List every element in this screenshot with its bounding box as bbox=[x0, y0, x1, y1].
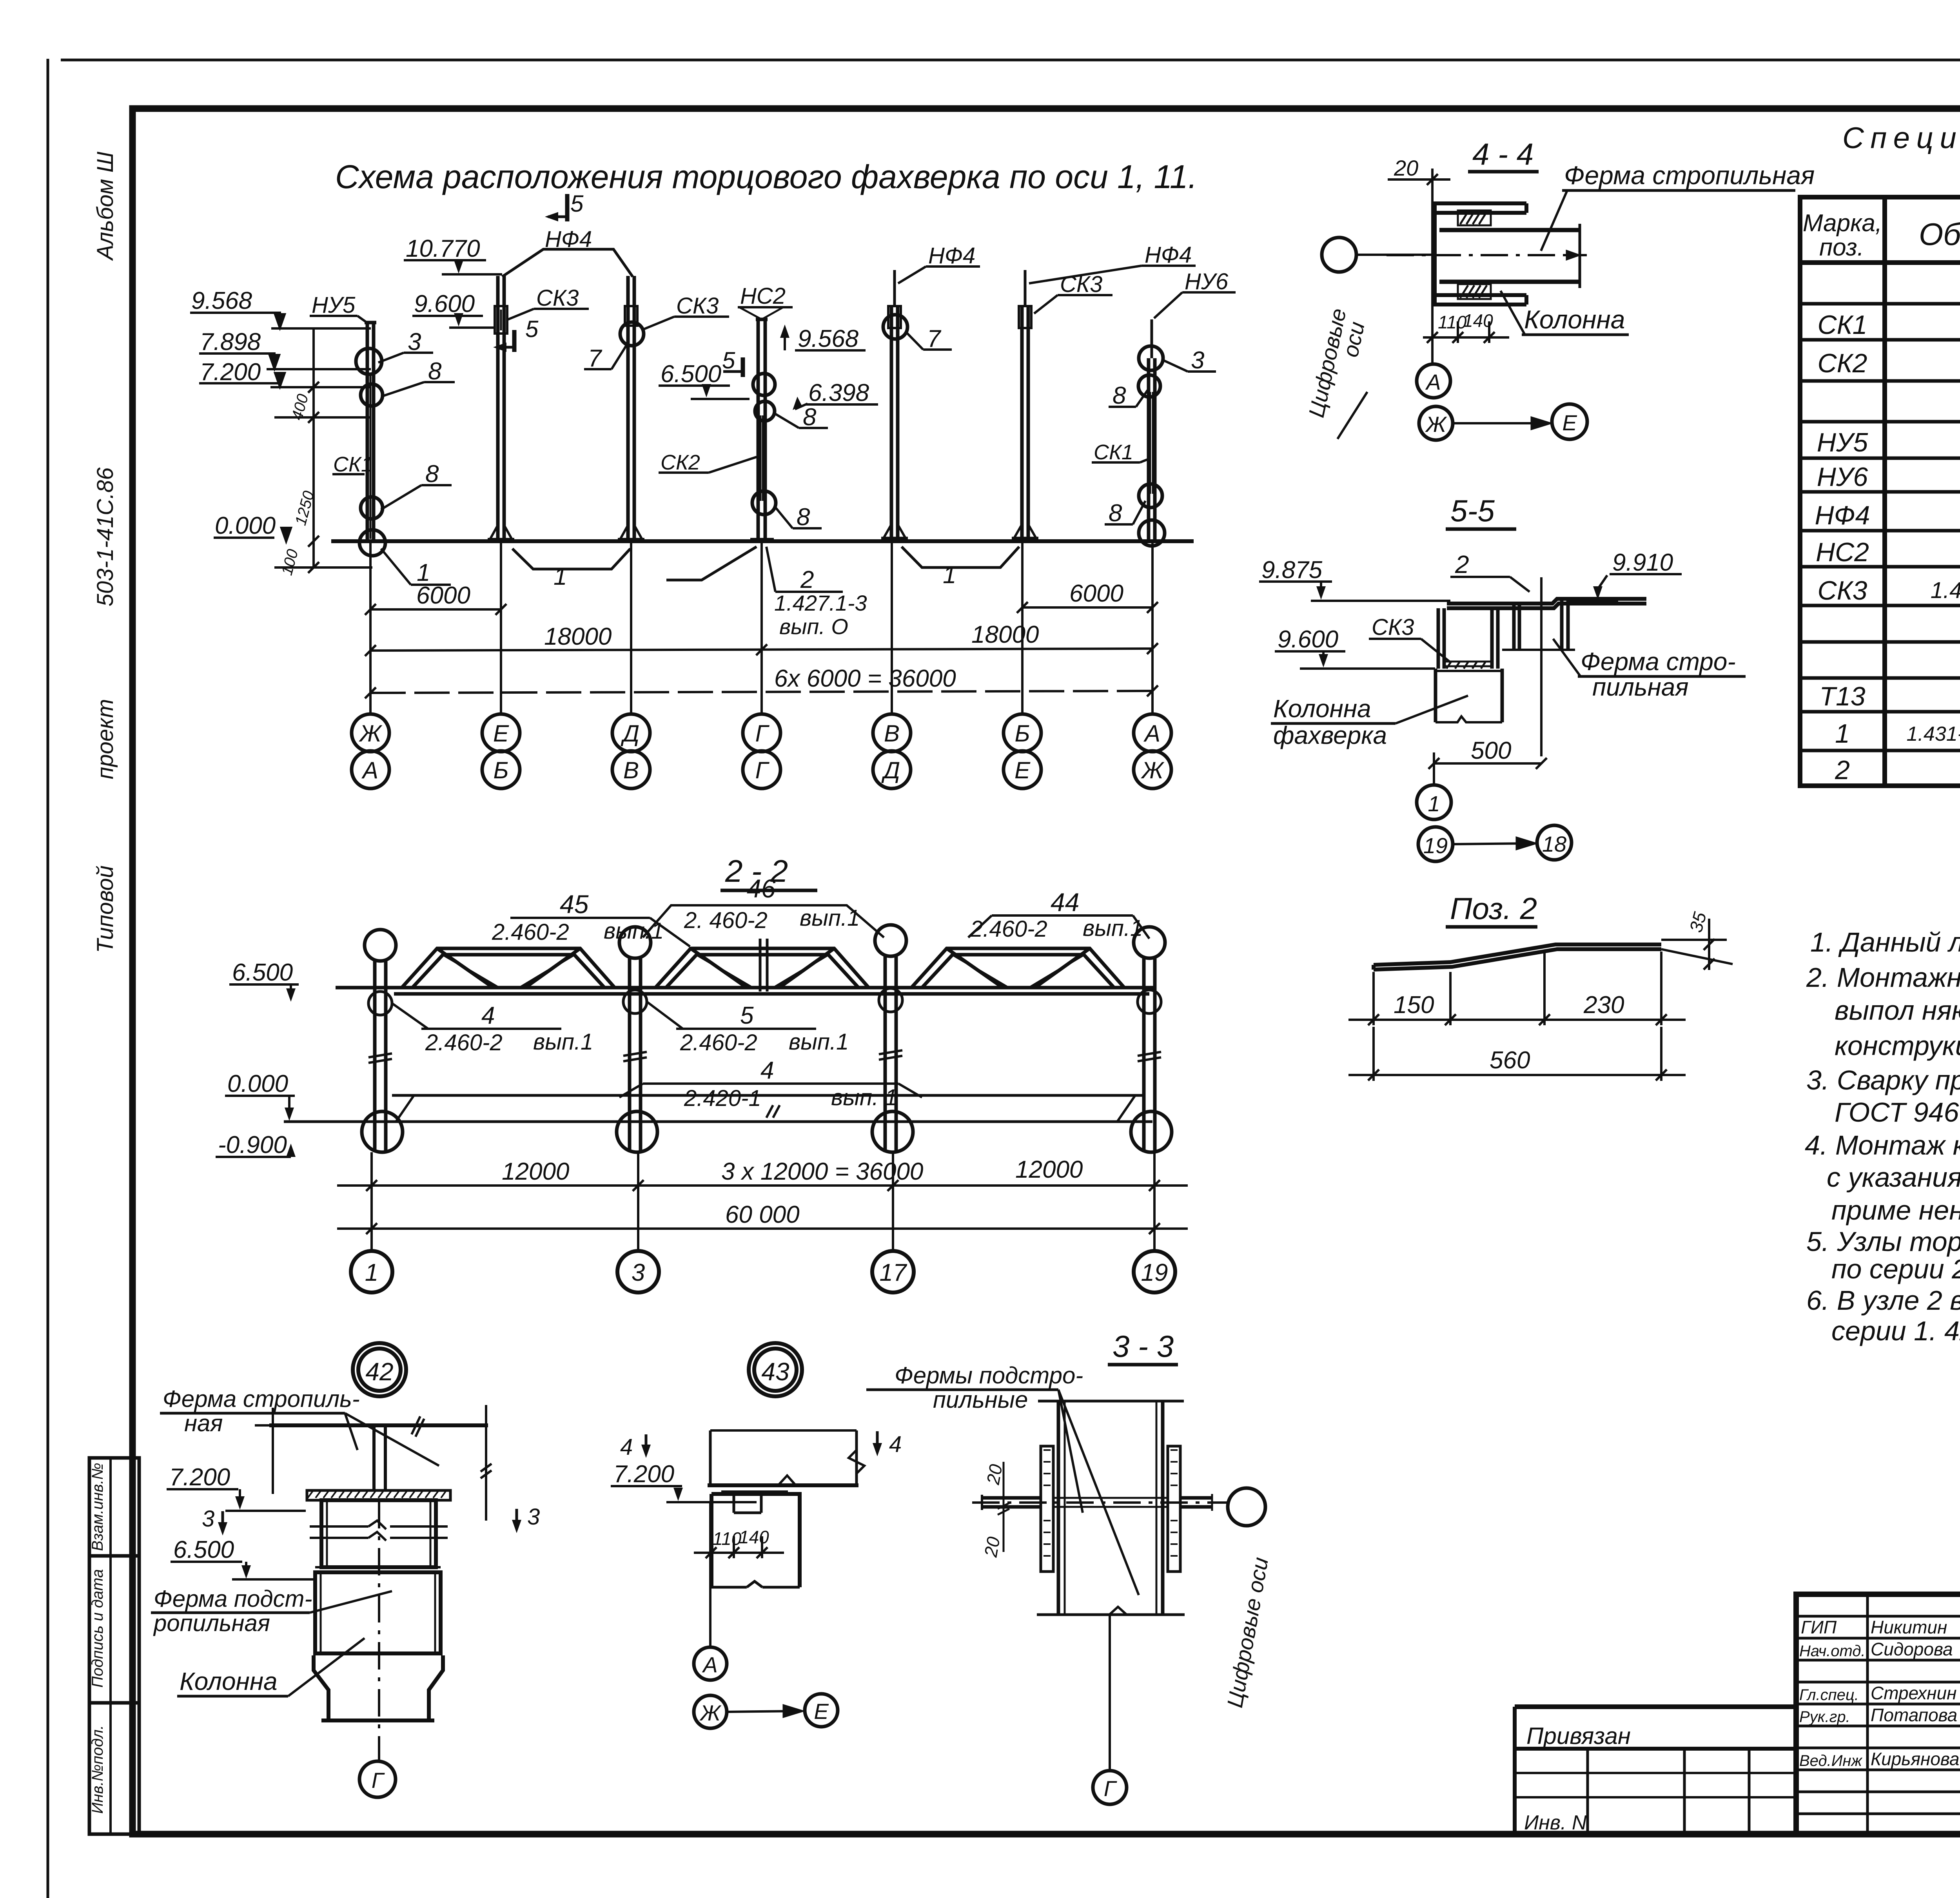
СК3 label (5-5) bbox=[1369, 615, 1450, 662]
svg-text:8: 8 bbox=[425, 460, 439, 488]
svg-text:5: 5 bbox=[722, 347, 735, 373]
svg-text:Нач.отд.: Нач.отд. bbox=[1799, 1642, 1866, 1660]
svg-text:вып.1: вып.1 bbox=[800, 905, 860, 931]
svg-text:2.460-2: 2.460-2 bbox=[680, 1030, 757, 1055]
svg-text:503-1-41С.86: 503-1-41С.86 bbox=[93, 467, 118, 606]
node 43: axis circles А Ж Е bbox=[694, 1502, 838, 1728]
svg-text:7.200: 7.200 bbox=[613, 1461, 674, 1488]
svg-text:1: 1 bbox=[365, 1259, 378, 1286]
label Колонна фахверка bbox=[1271, 694, 1468, 749]
svg-text:Е: Е bbox=[1562, 410, 1577, 435]
svg-text:Колонна: Колонна bbox=[1524, 305, 1625, 334]
svg-text:500: 500 bbox=[1471, 737, 1511, 764]
svg-text:1: 1 bbox=[943, 562, 956, 589]
svg-text:Д: Д bbox=[621, 720, 639, 747]
svg-text:Ж: Ж bbox=[1425, 412, 1447, 437]
svg-text:3: 3 bbox=[1191, 347, 1204, 374]
svg-text:Т13: Т13 bbox=[1819, 682, 1865, 711]
svg-text:12000: 12000 bbox=[502, 1158, 569, 1185]
svg-text:150: 150 bbox=[1394, 992, 1434, 1019]
post 3 (x=1610, tall НФ4) bbox=[618, 276, 644, 541]
3-3 rotated label Цифровые оси bbox=[1222, 1555, 1273, 1709]
svg-text:6000: 6000 bbox=[1069, 580, 1123, 607]
node 43: section mark 4 right bbox=[873, 1431, 902, 1457]
callout 45 bbox=[492, 890, 690, 946]
svg-text:НУ6: НУ6 bbox=[1817, 462, 1868, 492]
svg-text:Г: Г bbox=[372, 1768, 385, 1793]
Поз.2 title bbox=[1446, 891, 1537, 927]
svg-text:НФ4: НФ4 bbox=[928, 243, 975, 268]
svg-text:3 x 12000 = 36000: 3 x 12000 = 36000 bbox=[721, 1158, 923, 1185]
node 42: upper column box bbox=[310, 1500, 448, 1567]
svg-text:1.431-20 вып.7 часть2: 1.431-20 вып.7 часть2 bbox=[1907, 723, 1960, 745]
axis drop lines bbox=[370, 540, 1152, 714]
3-3 dim 20-20 rotated bbox=[980, 1462, 1009, 1559]
node 43: section mark 4 + level 7.200 bbox=[611, 1434, 757, 1502]
svg-text:10.770: 10.770 bbox=[406, 235, 480, 262]
axis circles 1, 19 -> 18 (5-5) bbox=[1417, 763, 1572, 861]
svg-text:А: А bbox=[702, 1652, 717, 1677]
2-2 axis circles bbox=[351, 1251, 1175, 1293]
svg-text:-0.900: -0.900 bbox=[218, 1131, 287, 1158]
node 42: label Колонна bbox=[177, 1638, 365, 1696]
svg-text:1.427.1-3 вып. 2: 1.427.1-3 вып. 2 bbox=[1931, 578, 1960, 603]
svg-text:вып. 1: вып. 1 bbox=[831, 1085, 897, 1110]
svg-text:СК3: СК3 bbox=[1060, 272, 1102, 297]
2-2 posts top circles bbox=[365, 925, 1165, 961]
svg-text:4: 4 bbox=[620, 1434, 633, 1460]
svg-text:Инв. N: Инв. N bbox=[1524, 1811, 1587, 1834]
svg-text:8: 8 bbox=[803, 404, 817, 431]
callout 1 trapezoid between posts 2-3 bbox=[512, 549, 630, 590]
svg-text:46: 46 bbox=[747, 874, 776, 903]
node 43: dims 110 140 bbox=[694, 1527, 784, 1558]
svg-text:конструкций.: конструкций. bbox=[1835, 1030, 1960, 1061]
svg-text:проект: проект bbox=[93, 699, 118, 779]
svg-text:СК3: СК3 bbox=[1817, 576, 1867, 605]
node 42: label Ферма стропильная bbox=[160, 1386, 439, 1466]
5-5 bent plate bbox=[1447, 599, 1646, 608]
post 2 (x=1278, tall НФ4) bbox=[488, 276, 514, 541]
svg-text:8: 8 bbox=[428, 358, 442, 385]
left margin rotated captions bbox=[93, 151, 118, 953]
svg-text:6.398: 6.398 bbox=[808, 379, 869, 406]
staff names bbox=[1799, 1617, 1960, 1769]
spec table rows bbox=[1815, 268, 1960, 785]
svg-text:18: 18 bbox=[1542, 832, 1566, 856]
6.500 label bbox=[659, 361, 750, 399]
привязан + left extension table bbox=[1515, 1707, 1796, 1834]
svg-text:В: В bbox=[623, 757, 639, 783]
svg-text:19: 19 bbox=[1141, 1259, 1168, 1286]
ground line of scheme bbox=[331, 539, 1194, 543]
callout 44 bbox=[968, 888, 1149, 942]
dims 110 140 (4-4) bbox=[1423, 310, 1509, 343]
svg-text:9.600: 9.600 bbox=[1278, 626, 1338, 653]
svg-text:18000: 18000 bbox=[544, 623, 612, 650]
svg-text:3: 3 bbox=[408, 328, 421, 355]
3-3 I-beam bbox=[982, 1494, 1212, 1511]
4-4 beam bbox=[1439, 224, 1580, 288]
8 labels post4 bbox=[775, 404, 828, 531]
HF4 callout over posts 2-3 bbox=[502, 227, 633, 277]
svg-text:2.460-2: 2.460-2 bbox=[425, 1030, 503, 1055]
svg-text:17: 17 bbox=[880, 1259, 907, 1286]
9.568 right label bbox=[780, 324, 866, 352]
svg-text:110: 110 bbox=[713, 1528, 742, 1549]
svg-text:вып. О: вып. О bbox=[779, 614, 848, 639]
dim 20 top bbox=[1388, 156, 1450, 192]
spec table title bbox=[1842, 121, 1960, 191]
svg-text:НФ4: НФ4 bbox=[1815, 500, 1870, 530]
svg-text:2: 2 bbox=[1835, 755, 1850, 785]
CK2 label bbox=[659, 451, 757, 474]
svg-text:6.500: 6.500 bbox=[661, 361, 721, 388]
2-2 post node circles bbox=[368, 988, 1161, 1015]
svg-text:Ж: Ж bbox=[699, 1700, 722, 1725]
svg-text:Подпись и дата: Подпись и дата bbox=[89, 1569, 106, 1688]
svg-text:19: 19 bbox=[1423, 833, 1448, 858]
svg-text:0.000: 0.000 bbox=[215, 512, 276, 539]
frame bottom reinforcement under title block bbox=[132, 1831, 1960, 1838]
svg-text:Ж: Ж bbox=[1140, 757, 1164, 783]
svg-text:7.200: 7.200 bbox=[169, 1464, 230, 1491]
svg-text:3: 3 bbox=[202, 1506, 214, 1532]
svg-text:Д: Д bbox=[881, 757, 900, 783]
node 43: column with notch bbox=[711, 1492, 800, 1587]
svg-text:4: 4 bbox=[760, 1057, 774, 1084]
svg-text:7: 7 bbox=[588, 345, 603, 372]
node 42: thin plates bbox=[315, 1567, 441, 1572]
label Колонна (4-4) bbox=[1501, 291, 1629, 335]
svg-text:СК3: СК3 bbox=[1372, 615, 1414, 640]
svg-text:Вед.Инж: Вед.Инж bbox=[1799, 1752, 1862, 1769]
svg-text:НС2: НС2 bbox=[1816, 537, 1869, 567]
svg-text:поз.: поз. bbox=[1819, 234, 1864, 261]
svg-text:СК2: СК2 bbox=[661, 451, 700, 474]
left bottom strip table bbox=[89, 1458, 139, 1834]
svg-text:НУ5: НУ5 bbox=[1817, 428, 1868, 457]
callout 4 2.460-2 вып.1 bbox=[392, 1002, 593, 1055]
svg-text:6000: 6000 bbox=[416, 582, 470, 609]
svg-text:5-5: 5-5 bbox=[1450, 493, 1495, 528]
3-3 flange plates bbox=[1041, 1446, 1180, 1572]
svg-text:Е: Е bbox=[814, 1699, 829, 1724]
section 2-2 title bbox=[720, 854, 817, 890]
svg-text:7.200: 7.200 bbox=[200, 359, 261, 386]
svg-text:0.000: 0.000 bbox=[227, 1070, 288, 1097]
Поз.2 dim 35 bbox=[1661, 910, 1733, 970]
svg-text:НУ5: НУ5 bbox=[312, 292, 356, 318]
callout 2 1.427.1-3 вып.О below post4 bbox=[766, 547, 867, 639]
svg-text:3: 3 bbox=[632, 1259, 645, 1286]
2-2 floor lines bbox=[284, 1095, 1152, 1122]
spec table header texts bbox=[1803, 208, 1960, 261]
svg-text:20: 20 bbox=[1394, 156, 1418, 180]
Поз.2 dims 150 230 bbox=[1348, 952, 1686, 1025]
svg-text:Фермы подстро-: Фермы подстро- bbox=[895, 1362, 1083, 1389]
3-3 truss columns bbox=[1037, 1401, 1185, 1615]
svg-text:ГОСТ 9467 - 75.: ГОСТ 9467 - 75. bbox=[1835, 1097, 1960, 1128]
node 42: section marks 3 bbox=[202, 1504, 540, 1535]
svg-text:вып.1: вып.1 bbox=[789, 1029, 849, 1055]
5-5 stand column section bbox=[1438, 608, 1498, 669]
2-2 truss 2 bbox=[655, 939, 869, 992]
node mark 43 bbox=[749, 1343, 802, 1396]
svg-text:Потапова: Потапова bbox=[1871, 1705, 1957, 1725]
svg-text:5. Узлы торцового фахверка: 5. Узлы торцового фахверка замаркированы bbox=[1806, 1226, 1960, 1257]
svg-text:Обозначение: Обозначение bbox=[1919, 217, 1960, 252]
svg-text:СК3: СК3 bbox=[676, 293, 719, 319]
svg-text:Стрехнин: Стрехнин bbox=[1871, 1683, 1956, 1703]
svg-text:Типовой: Типовой bbox=[93, 865, 118, 953]
svg-text:140: 140 bbox=[739, 1527, 769, 1547]
svg-text:приме ненных серий.: приме ненных серий. bbox=[1831, 1195, 1960, 1225]
svg-text:9.875: 9.875 bbox=[1261, 557, 1323, 584]
svg-text:110: 110 bbox=[1438, 312, 1467, 332]
svg-text:Схема расположения торцового ф: Схема расположения торцового фахверка по… bbox=[335, 158, 1197, 195]
svg-text:Спецификация к схеме распо: Спецификация к схеме расположения bbox=[1842, 121, 1960, 155]
svg-text:60 000: 60 000 bbox=[725, 1201, 800, 1228]
svg-text:Ферма стро-: Ферма стро- bbox=[1581, 647, 1736, 676]
svg-text:9.910: 9.910 bbox=[1612, 549, 1673, 576]
svg-text:Альбом Ш: Альбом Ш bbox=[93, 151, 118, 261]
level 9.875 bbox=[1259, 557, 1450, 601]
node 42: base plate with hatch bbox=[307, 1490, 450, 1500]
svg-text:9.568: 9.568 bbox=[191, 287, 252, 314]
svg-text:4: 4 bbox=[889, 1432, 902, 1457]
svg-text:4 - 4: 4 - 4 bbox=[1472, 137, 1534, 171]
svg-text:Рук.гр.: Рук.гр. bbox=[1799, 1708, 1850, 1726]
dim 500 (5-5) bbox=[1428, 737, 1547, 786]
svg-text:СК3: СК3 bbox=[536, 285, 579, 311]
svg-text:9.568: 9.568 bbox=[798, 325, 859, 352]
post CK1 axis Ж (x=945) bbox=[356, 323, 385, 556]
svg-text:8: 8 bbox=[797, 504, 810, 531]
label 2 (5-5) bbox=[1450, 550, 1530, 592]
4-4 bolt hatch boxes bbox=[1458, 210, 1491, 299]
svg-text:6.500: 6.500 bbox=[232, 959, 293, 986]
section mark 5 lower bbox=[493, 316, 539, 352]
svg-text:НС2: НС2 bbox=[740, 283, 786, 309]
svg-text:А: А bbox=[361, 757, 378, 783]
post 7 (x=2938, СК1 + НУ6) bbox=[1138, 319, 1165, 546]
node 42: axis + circle Г bbox=[359, 1501, 396, 1797]
svg-text:СК1: СК1 bbox=[333, 453, 373, 476]
node 42: label Ферма подстропильная bbox=[151, 1586, 392, 1636]
svg-text:серии 1. 427. 1-3 вып. О: серии 1. 427. 1-3 вып. О bbox=[1831, 1316, 1960, 1346]
svg-text:Б: Б bbox=[1014, 720, 1030, 747]
HF4 callout over posts 5-6 bbox=[898, 243, 980, 283]
2-2 dim line 60000 bbox=[337, 1201, 1188, 1234]
svg-text:В: В bbox=[884, 720, 900, 747]
svg-text:СК1: СК1 bbox=[1094, 441, 1133, 464]
svg-text:12000: 12000 bbox=[1015, 1156, 1083, 1183]
svg-text:8: 8 bbox=[1112, 382, 1126, 409]
svg-text:2. Монтажные швы приняты: 2. Монтажные швы приняты hшв = 6мм и bbox=[1806, 962, 1960, 993]
svg-text:18000: 18000 bbox=[971, 621, 1039, 648]
post CK1 labels bbox=[310, 292, 455, 586]
section mark 5 upper bbox=[545, 190, 584, 221]
dim line 3 (6x6000=36000) bbox=[365, 665, 1158, 698]
Поз.2 dim 560 bbox=[1348, 1027, 1686, 1081]
svg-text:3: 3 bbox=[527, 1504, 540, 1530]
svg-text:43: 43 bbox=[761, 1358, 789, 1386]
node 43: beam bbox=[708, 1430, 864, 1485]
2-2 bottom chord band bbox=[336, 988, 1156, 994]
callout 1 trapezoid between posts 4-5 bbox=[902, 547, 1019, 589]
svg-text:7: 7 bbox=[927, 325, 942, 352]
callout 5 2.460-2 вып.1 bbox=[647, 1002, 849, 1055]
2-2 post break marks bbox=[368, 1050, 1161, 1063]
svg-text:6.500: 6.500 bbox=[173, 1536, 234, 1563]
axis circles row 2 bbox=[352, 751, 1171, 789]
label Ферма стропильная (4-4) bbox=[1541, 161, 1815, 251]
title block outer bbox=[1796, 1594, 1960, 1834]
3-3 label Фермы подстропильные bbox=[866, 1362, 1139, 1595]
svg-text:6. В узле 2 высота шва: 6. В узле 2 высота шва hшв = 10мм bbox=[1806, 1285, 1960, 1316]
callout 4 2.420-1 вып.1 bbox=[619, 1057, 922, 1118]
post 4 (x=1943, НС2 + СК2) bbox=[750, 319, 776, 541]
svg-text:44: 44 bbox=[1051, 888, 1079, 917]
4-4 column bracket bbox=[1435, 203, 1526, 305]
section 4-4 title bbox=[1468, 137, 1539, 172]
label Ферма стропильная (5-5) bbox=[1553, 639, 1746, 701]
level -0.900 bbox=[216, 1131, 296, 1158]
2-2 truss 1 bbox=[402, 948, 615, 988]
notes bbox=[1805, 927, 1960, 1346]
svg-text:Ферма подст-: Ферма подст- bbox=[154, 1586, 312, 1612]
dim line 2 (18000 + 18000) bbox=[365, 621, 1158, 656]
svg-text:3. Сварку производить эле: 3. Сварку производить эле ктродами типа … bbox=[1806, 1065, 1960, 1095]
node 42: level 6.500 bbox=[171, 1536, 314, 1579]
svg-text:Сидорова: Сидорова bbox=[1871, 1639, 1953, 1659]
callout 2 trapezoid near post 4 left bbox=[666, 547, 757, 580]
section mark 5 at post4 bbox=[722, 347, 743, 377]
svg-text:НУ6: НУ6 bbox=[1185, 269, 1229, 294]
5-5 axis vertical line bbox=[1540, 577, 1543, 756]
svg-text:СК2: СК2 bbox=[1817, 348, 1867, 378]
svg-text:с указаниями СНиП Ш-16 -80,: с указаниями СНиП Ш-16 -80, Ш -18-75 и у… bbox=[1827, 1162, 1960, 1193]
svg-text:8: 8 bbox=[1109, 500, 1122, 527]
2-2 foundation circles bbox=[362, 1111, 1172, 1152]
svg-text:560: 560 bbox=[1490, 1047, 1530, 1074]
svg-text:1. Данный лист см. с лис: 1. Данный лист см. с лис тами 43, 45, 46… bbox=[1810, 927, 1960, 957]
level 0.000 (2-2) bbox=[225, 1070, 295, 1121]
svg-text:А: А bbox=[1425, 370, 1441, 394]
svg-text:Е: Е bbox=[493, 720, 509, 747]
svg-text:Г: Г bbox=[1104, 1776, 1117, 1801]
staff grid bbox=[1796, 1594, 1960, 1834]
svg-text:1.427.1-3: 1.427.1-3 bbox=[774, 591, 867, 615]
svg-text:Марка,: Марка, bbox=[1803, 210, 1882, 237]
3-3 bottom axis circle Г bbox=[1093, 1615, 1127, 1804]
3-3 axis circle right bbox=[1228, 1488, 1265, 1526]
4-4 axis vertical bbox=[1431, 173, 1434, 364]
level 9.600 (5-5) bbox=[1275, 626, 1435, 669]
svg-text:5: 5 bbox=[740, 1002, 754, 1029]
svg-text:3 - 3: 3 - 3 bbox=[1112, 1329, 1174, 1363]
svg-text:Е: Е bbox=[1014, 757, 1031, 783]
svg-text:6x 6000 = 36000: 6x 6000 = 36000 bbox=[774, 665, 956, 692]
node 42: lower column bbox=[314, 1655, 443, 1720]
level 9.600 bbox=[412, 290, 495, 328]
svg-text:5: 5 bbox=[525, 316, 539, 342]
svg-text:Поз. 2: Поз. 2 bbox=[1450, 891, 1537, 926]
svg-text:по серии 2. 432-1 вып. 1: по серии 2. 432-1 вып. 1 bbox=[1831, 1254, 1960, 1284]
5-5 right truss member bbox=[1502, 599, 1575, 650]
node 42: level 7.200 bbox=[167, 1464, 306, 1511]
callout 1 under posts 1-2 bbox=[0, 0, 0, 0]
svg-text:230: 230 bbox=[1583, 992, 1624, 1019]
post 5 (x=2282) bbox=[881, 270, 908, 540]
level 6.500 (2-2) bbox=[229, 959, 299, 1002]
2-2 posts bbox=[375, 955, 1155, 1152]
svg-text:20: 20 bbox=[980, 1535, 1004, 1559]
svg-text:45: 45 bbox=[560, 890, 589, 919]
CK3 label post2 bbox=[508, 285, 589, 319]
svg-text:Г: Г bbox=[755, 757, 770, 783]
svg-text:2: 2 bbox=[800, 566, 814, 593]
node 42: rafter beam and web verticals bbox=[255, 1405, 492, 1521]
callout 46 bbox=[643, 874, 884, 937]
svg-text:1: 1 bbox=[1428, 791, 1440, 816]
svg-text:ГИП: ГИП bbox=[1801, 1617, 1837, 1637]
svg-text:Колонна: Колонна bbox=[1273, 694, 1371, 723]
axis circles А Ж Е (4-4) bbox=[1417, 364, 1587, 440]
svg-text:Ферма стропиль-: Ферма стропиль- bbox=[163, 1386, 360, 1412]
4-4 centerline bbox=[1387, 254, 1587, 256]
2-2 dim line 12000s bbox=[337, 1152, 1188, 1251]
svg-text:2.460-2: 2.460-2 bbox=[492, 919, 569, 945]
node mark 42 bbox=[353, 1343, 406, 1396]
svg-text:1: 1 bbox=[1835, 719, 1850, 749]
section 3-3 title bbox=[1108, 1329, 1178, 1365]
level 9.910 bbox=[1568, 549, 1682, 601]
svg-text:Б: Б bbox=[493, 757, 508, 783]
svg-text:вып.1: вып.1 bbox=[533, 1029, 593, 1055]
svg-text:Ж: Ж bbox=[358, 720, 382, 747]
svg-text:Колонна: Колонна bbox=[180, 1667, 278, 1695]
svg-text:5: 5 bbox=[570, 190, 584, 217]
svg-text:фахверка: фахверка bbox=[1273, 721, 1387, 749]
svg-text:9.600: 9.600 bbox=[414, 290, 475, 317]
axis circles row 1 bbox=[352, 714, 1171, 752]
svg-text:4: 4 bbox=[481, 1002, 495, 1029]
HC2 callout post 4 bbox=[738, 283, 793, 319]
svg-text:СК1: СК1 bbox=[1817, 310, 1867, 340]
6.398 label bbox=[793, 379, 878, 410]
svg-text:А: А bbox=[1143, 720, 1160, 747]
svg-text:НФ4: НФ4 bbox=[1145, 242, 1192, 268]
level ladder left of post CK1 bbox=[190, 313, 372, 573]
dim line 1 (6000) bbox=[365, 580, 1158, 615]
svg-text:Никитин: Никитин bbox=[1871, 1617, 1947, 1637]
svg-text:Кирьянова: Кирьянова bbox=[1871, 1749, 1960, 1769]
svg-text:Привязан: Привязан bbox=[1526, 1723, 1631, 1749]
node 42: sub-truss box bbox=[315, 1572, 441, 1653]
2-2 truss 3 bbox=[911, 948, 1124, 988]
svg-text:1: 1 bbox=[554, 563, 567, 590]
digit axes circle near 4-4 bbox=[1304, 237, 1432, 439]
svg-text:42: 42 bbox=[365, 1358, 393, 1386]
Поз.2 bent plate profile bbox=[1374, 944, 1661, 970]
svg-text:Взам.инв.№: Взам.инв.№ bbox=[89, 1463, 106, 1551]
svg-text:Ферма стропильная: Ферма стропильная bbox=[1564, 161, 1815, 190]
svg-text:2.420-1: 2.420-1 bbox=[684, 1086, 761, 1111]
svg-text:выпол няются после окончат: выпол няются после окончательной выверки bbox=[1835, 995, 1960, 1026]
svg-text:2. 460-2: 2. 460-2 bbox=[684, 908, 768, 933]
